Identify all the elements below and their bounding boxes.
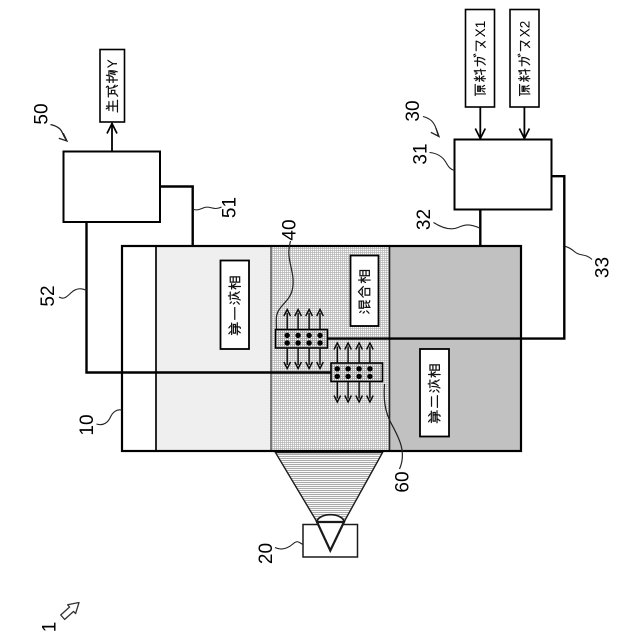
- figure number 1 with outline arrow: [40, 603, 79, 633]
- label 52: [38, 285, 87, 306]
- nozzle cone: [317, 522, 344, 551]
- label 31: [411, 143, 455, 170]
- nozzle box 20: [303, 525, 358, 558]
- funnel (spray cone): [276, 453, 383, 522]
- sparger 60 down arrows: [334, 382, 373, 402]
- label 60: [384, 384, 414, 493]
- label 20: [256, 542, 303, 564]
- svg-text:52: 52: [38, 285, 59, 306]
- gas X2 arrow: [519, 108, 529, 139]
- svg-text:30: 30: [403, 100, 424, 121]
- pipe 52: [87, 221, 332, 373]
- separator box 50: [64, 152, 161, 223]
- svg-text:40: 40: [280, 219, 301, 240]
- nozzle dome: [317, 515, 344, 522]
- vessel 10 body: [122, 246, 521, 451]
- mixed phase left boundary: [270, 247, 272, 451]
- mixed phase region (fine grid): [271, 247, 390, 451]
- label 51: [194, 197, 241, 218]
- vessel inner wall line: [155, 246, 157, 451]
- svg-text:Y: Y: [105, 59, 120, 68]
- phase boundary line: [389, 247, 391, 451]
- vessel outline: [122, 246, 521, 451]
- label 50: [32, 103, 67, 141]
- svg-text:10: 10: [77, 414, 98, 435]
- sparger 40 up arrows: [284, 310, 323, 330]
- svg-text:50: 50: [32, 103, 53, 124]
- raw gas X2 box: [510, 10, 539, 108]
- label 32: [414, 209, 480, 230]
- product box (生成物Y): [100, 50, 125, 123]
- svg-text:60: 60: [393, 471, 414, 492]
- svg-text:X2: X2: [517, 21, 532, 38]
- label 30: [403, 100, 439, 136]
- label 40: [276, 219, 300, 329]
- svg-text:32: 32: [414, 209, 435, 230]
- product arrow: [107, 124, 117, 152]
- pipe 33: [327, 176, 564, 338]
- sparger 40 down arrows: [284, 349, 323, 369]
- pipe 32: [479, 209, 481, 247]
- sparger 60 (lower): [331, 363, 383, 382]
- svg-text:X1: X1: [473, 21, 488, 38]
- sparger 40 (upper): [276, 330, 328, 349]
- first liquid phase label box: [221, 261, 250, 350]
- svg-text:31: 31: [411, 143, 432, 164]
- second liquid phase region (dark gray): [390, 247, 522, 451]
- svg-text:20: 20: [256, 543, 277, 564]
- second liquid phase label box: [420, 349, 449, 437]
- gas X1 arrow: [475, 108, 485, 139]
- label 10: [77, 410, 121, 436]
- pipe 51: [159, 187, 193, 247]
- first liquid phase region (light gray): [156, 247, 271, 451]
- label 33: [565, 246, 614, 278]
- gas feed box 31: [455, 140, 552, 210]
- mixed phase label box: [351, 256, 379, 327]
- svg-text:1: 1: [40, 622, 61, 633]
- sparger 60 up arrows: [334, 343, 373, 363]
- svg-text:51: 51: [220, 197, 241, 218]
- raw gas X1 box: [466, 10, 495, 108]
- svg-text:33: 33: [593, 257, 614, 278]
